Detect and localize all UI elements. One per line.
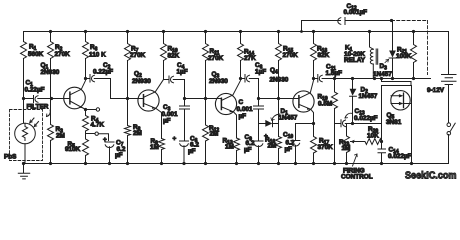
wire collector line to relay <box>336 78 431 80</box>
wire C6 to Q4 base <box>259 79 293 99</box>
svg-text:2M: 2M <box>56 133 65 140</box>
potentiometer R22 firing control <box>339 124 373 181</box>
relay contact dashed linkage <box>392 21 428 75</box>
resistor R20 <box>359 126 382 145</box>
terminal R4 output jack <box>86 132 109 141</box>
resistor R16 <box>265 99 282 166</box>
svg-text:µF: µF <box>188 148 196 155</box>
relay K1 coil <box>344 30 378 80</box>
node Q1 base <box>50 97 53 100</box>
resistor R19 <box>318 77 338 165</box>
svg-text:2N930: 2N930 <box>132 78 151 85</box>
svg-text:1M: 1M <box>225 144 234 151</box>
svg-text:2N930: 2N930 <box>270 77 289 84</box>
capacitor C14 <box>378 140 412 165</box>
capacitor C8 <box>173 136 200 166</box>
capacitor C13 <box>335 108 382 127</box>
svg-text:C: C <box>239 99 244 106</box>
svg-text:1µF: 1µF <box>177 69 188 76</box>
svg-text:82K: 82K <box>168 53 180 60</box>
svg-text:FILTER: FILTER <box>27 104 49 111</box>
resistor R12 <box>203 99 220 166</box>
wire C2 to Q2 base <box>111 79 138 99</box>
diode D1 <box>259 108 298 127</box>
svg-text:270K: 270K <box>283 52 299 59</box>
resistor R11 <box>203 30 224 100</box>
node Q3 base <box>183 97 186 100</box>
resistor R14 <box>238 30 257 80</box>
svg-text:SeekIC.com: SeekIC.com <box>405 171 457 182</box>
transistor Q3 <box>209 71 241 138</box>
svg-text:Q4: Q4 <box>270 67 278 75</box>
svg-text:0.22µF: 0.22µF <box>93 69 113 76</box>
svg-text:100K: 100K <box>396 53 412 60</box>
ground <box>18 164 29 179</box>
resistor R15 <box>276 30 299 100</box>
svg-text:110 K: 110 K <box>89 52 106 59</box>
capacitor C11 <box>314 64 343 83</box>
svg-text:2N930: 2N930 <box>41 69 60 76</box>
resistor R2 <box>48 30 71 99</box>
svg-text:µF: µF <box>163 118 171 125</box>
svg-text:560K: 560K <box>28 51 44 58</box>
svg-text:CONTROL: CONTROL <box>341 174 373 181</box>
svg-text:4.7K: 4.7K <box>91 122 105 129</box>
photocell PbS <box>4 118 39 165</box>
svg-text:0.22µF: 0.22µF <box>25 87 45 94</box>
wire Q1 base <box>52 98 65 100</box>
svg-text:PbS: PbS <box>4 154 17 161</box>
resistor R5 <box>65 134 89 166</box>
svg-text:370K: 370K <box>318 144 334 151</box>
svg-text:1µF: 1µF <box>255 69 266 76</box>
capacitor C4 <box>164 62 188 83</box>
svg-text:10K: 10K <box>367 133 379 140</box>
svg-text:1M: 1M <box>150 144 159 151</box>
svg-text:µF: µF <box>244 147 252 154</box>
capacitor C2 <box>86 62 114 82</box>
svg-text:1N457: 1N457 <box>373 71 392 78</box>
svg-text:0.5M: 0.5M <box>318 101 332 108</box>
battery 9-12V <box>427 32 456 123</box>
resistor R6 <box>83 30 107 80</box>
svg-text:3N81: 3N81 <box>386 119 402 126</box>
svg-text:2M: 2M <box>133 130 142 137</box>
diode D2 <box>350 77 378 124</box>
capacitor C3 <box>162 99 190 142</box>
resistor R9 <box>150 138 165 165</box>
svg-text:0.001µF: 0.001µF <box>344 9 368 16</box>
svg-text:2N930: 2N930 <box>209 78 228 85</box>
resistor R18 <box>311 30 330 80</box>
resistor R21 <box>396 30 417 80</box>
resistor R3 <box>48 99 65 166</box>
resistor R7 <box>125 30 146 100</box>
svg-text:+: + <box>103 137 107 144</box>
wire Q4 emitter to C10 <box>296 124 314 141</box>
wire C4 to Q3 base <box>185 80 216 99</box>
wire top supply bus <box>24 31 449 33</box>
svg-text:270K: 270K <box>55 51 71 58</box>
filter dashed box <box>10 104 51 161</box>
svg-text:1M: 1M <box>342 145 351 152</box>
svg-text:2M: 2M <box>210 131 219 138</box>
resistor R4 <box>83 110 105 134</box>
capacitor C10 <box>283 132 300 166</box>
svg-text:0.022µF: 0.022µF <box>354 115 378 122</box>
svg-text:270K: 270K <box>130 52 146 59</box>
svg-text:0.022µF: 0.022µF <box>388 153 412 160</box>
resistor R1 <box>21 42 44 59</box>
svg-text:9-12V: 9-12V <box>427 87 445 94</box>
resistor R13 <box>223 138 240 166</box>
node Q1 emitter <box>84 108 87 111</box>
terminal Q1 emitter jack <box>86 108 100 111</box>
svg-text:0.001: 0.001 <box>237 106 253 113</box>
transistor Q1 <box>41 62 86 110</box>
wire bottom ground bus <box>24 163 449 165</box>
node Q4 base <box>257 97 260 100</box>
svg-text:RELAY: RELAY <box>344 57 366 64</box>
svg-text:µF: µF <box>285 146 293 153</box>
svg-text:1N457: 1N457 <box>359 93 378 100</box>
capacitor C1 <box>22 80 52 103</box>
capacitor C5 <box>237 99 264 142</box>
svg-text:+: + <box>173 136 177 143</box>
mosfet Q5 <box>380 77 413 165</box>
resistor R8 <box>125 99 142 166</box>
svg-text:82K: 82K <box>318 52 330 59</box>
switch S1 <box>447 123 455 164</box>
wire left rail <box>23 32 25 123</box>
diode D3 <box>373 21 396 81</box>
svg-text:µF: µF <box>115 152 123 159</box>
svg-text:1N457: 1N457 <box>279 115 298 122</box>
node Q4 emitter <box>312 122 315 125</box>
resistor R10 <box>161 30 180 80</box>
capacitor C6 <box>241 62 267 82</box>
svg-text:270K: 270K <box>208 55 224 62</box>
capacitor C9 <box>244 133 268 165</box>
svg-text:µF: µF <box>239 113 247 120</box>
svg-text:910K: 910K <box>65 146 81 153</box>
transistor Q2 <box>132 71 164 139</box>
transistor Q4 <box>270 67 315 124</box>
svg-text:27K: 27K <box>244 55 256 62</box>
svg-text:2M: 2M <box>268 143 277 150</box>
svg-text:1.5µF: 1.5µF <box>326 70 343 77</box>
resistor R17 <box>311 124 334 166</box>
capacitor C12 <box>300 3 393 33</box>
capacitor C7 <box>103 137 126 166</box>
